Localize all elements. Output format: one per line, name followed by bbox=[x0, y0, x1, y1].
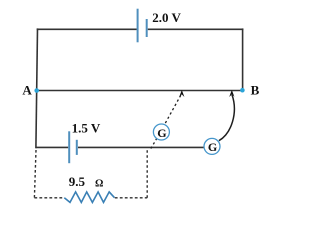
wire: right vertical from top corner down to node B bbox=[242, 28, 244, 90]
svg-text:9.5: 9.5 bbox=[69, 174, 86, 189]
wire: left vertical from top-left corner down through A to lower battery wire bbox=[36, 28, 38, 148]
dashed wire: right vertical up to lower battery wire bbox=[146, 150, 148, 198]
dashed wire: left vertical below battery branch bbox=[34, 150, 36, 198]
svg-text:G: G bbox=[157, 126, 166, 140]
node B bbox=[240, 88, 245, 93]
wire: top horizontal left segment to battery bbox=[37, 28, 137, 30]
battery B2 1.5 V : long plate bbox=[68, 131, 70, 163]
wire: top horizontal right segment from battery to right corner bbox=[148, 28, 244, 30]
resistor R 9.5 ohm zigzag bbox=[64, 192, 114, 203]
battery B1 2.0 V : long plate bbox=[137, 9, 139, 43]
svg-text:1.5 V: 1.5 V bbox=[72, 121, 101, 136]
svg-text:2.0 V: 2.0 V bbox=[152, 10, 181, 25]
node A bbox=[34, 88, 39, 93]
svg-text:A: A bbox=[22, 83, 32, 98]
wire: lower horizontal from battery to galvanometer G2 bbox=[78, 146, 205, 148]
wire: lower horizontal left segment to 1.5V battery bbox=[36, 146, 69, 148]
svg-text:G: G bbox=[208, 140, 217, 154]
arrowhead of solid probe bbox=[229, 90, 234, 97]
galvanometer G2 bbox=[204, 138, 220, 154]
svg-text:Ω: Ω bbox=[95, 178, 103, 189]
solid probe curve from G2 up to wire AB near B bbox=[219, 95, 234, 141]
dashed probe curve from lower wire up to wire AB bbox=[151, 94, 182, 149]
dashed wire: bottom right horizontal from resistor bbox=[115, 197, 147, 199]
wire: middle horizontal from A to B bbox=[36, 90, 243, 92]
arrowhead of dashed probe bbox=[179, 90, 184, 97]
svg-text:B: B bbox=[251, 83, 260, 98]
battery B2 1.5 V : short plate bbox=[76, 140, 78, 155]
galvanometer G1 bbox=[153, 124, 169, 140]
battery B1 2.0 V : short plate bbox=[146, 19, 148, 37]
dashed wire: bottom left horizontal to resistor bbox=[34, 197, 63, 199]
